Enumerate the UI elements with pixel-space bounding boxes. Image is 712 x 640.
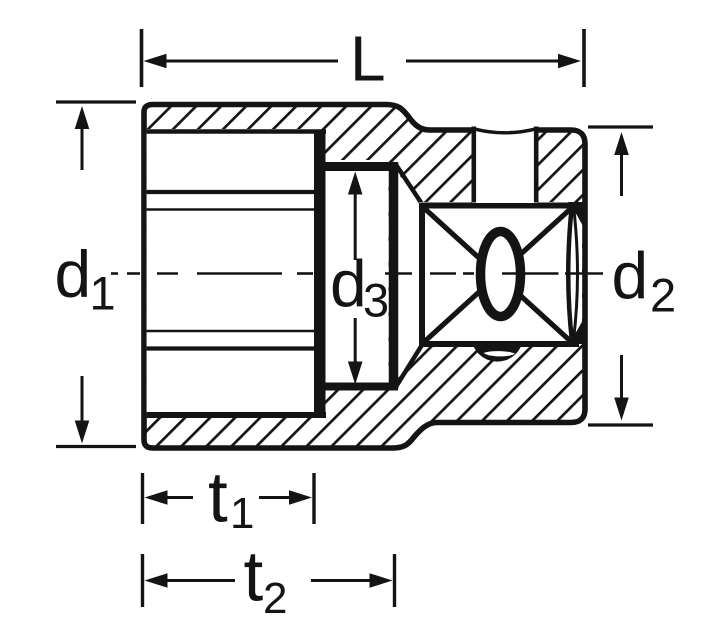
svg-text:d: d xyxy=(55,237,92,311)
svg-text:L: L xyxy=(350,23,386,95)
svg-text:t: t xyxy=(208,459,228,538)
svg-text:d: d xyxy=(330,247,367,321)
svg-text:3: 3 xyxy=(363,274,389,327)
svg-text:d: d xyxy=(612,239,649,313)
svg-text:1: 1 xyxy=(90,267,116,320)
svg-text:2: 2 xyxy=(263,574,287,623)
svg-text:t: t xyxy=(244,538,264,617)
svg-text:2: 2 xyxy=(650,269,676,322)
svg-text:1: 1 xyxy=(230,489,254,538)
